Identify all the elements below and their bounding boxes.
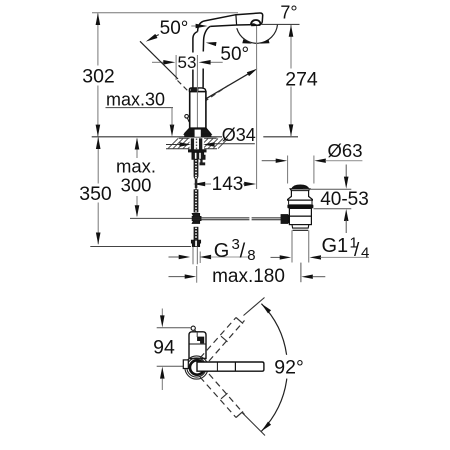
dimension 53 left tail [152,61,164,63]
tailpipe axis ext line [300,263,302,283]
dimension 302 arrow up [96,13,101,25]
dashed lever up edge B [209,321,245,362]
drain flange upper [288,189,313,200]
set screw tail [187,118,189,122]
ext line swing top [244,298,265,316]
dashed lever up joint tick [221,336,228,342]
faucet body [190,92,206,130]
dim G3/8 right [200,255,212,259]
swivel arc at pivot [237,25,278,44]
arc arrowhead right of datum [260,39,270,43]
dimension 274 line upper [290,25,292,69]
tailpipe right line [308,230,310,262]
dimension 302 line upper [97,13,99,65]
dashed lever down edge A [200,377,236,418]
dimension max.30 arrow down [170,125,175,137]
svg-text:300: 300 [121,175,152,196]
svg-text:8: 8 [247,247,255,264]
arrowhead onto vertical datum [247,69,258,77]
hose nut at G3/8 [191,240,200,246]
leader underline for max.30 [106,107,174,109]
svg-text:/: / [354,240,360,261]
base flare [184,128,211,134]
G3/8 ext tick right [199,252,201,264]
dimension 274 arrow down [289,124,294,136]
counter hatch top edge [179,137,217,139]
ext line under supply tube [196,266,198,283]
swing arc upper part [261,304,286,355]
rod guide bracket [200,159,202,162]
mounting washer band [188,149,207,152]
set screw detail [185,115,189,119]
dimension 53 left arrow [163,60,175,65]
neck left line upper [193,32,198,53]
aerator slot [252,24,261,26]
svg-text:302: 302 [82,65,115,87]
body top view divider [189,343,206,345]
shank right thread [199,138,202,149]
dimension 350 arrow up [96,137,101,149]
shank centre detail [196,139,198,150]
svg-text:Ø63: Ø63 [328,140,363,161]
leader arrow to neck [209,43,216,44]
dim G1-1/4 right [310,255,322,259]
escutcheon outer circle [185,356,208,379]
shank centre [194,138,199,149]
clip pin link [195,330,197,332]
drain body lower [289,216,311,224]
leader arrow to lever (horizontal) [191,25,198,27]
extension line 53 left [175,55,177,80]
drain dome cap [292,185,309,189]
dashed lever up end cap [236,318,243,324]
drain body upper [289,208,311,216]
ext line 94 bottom [157,365,184,367]
svg-text:94: 94 [153,337,175,359]
hatch mask over shank [190,138,205,149]
arc arrowhead left of datum [242,39,252,43]
dim G3/8 left [169,256,180,258]
dimension 302 arrow down [96,125,101,137]
dashed lever down end cap [236,411,243,417]
hose thin section [195,179,197,190]
svg-text:350: 350 [79,183,112,205]
svg-text:Ø34: Ø34 [222,125,256,145]
base centre slot [195,130,201,137]
dimension 143 right arrow+shaft [243,183,247,185]
swing arc arrowhead top [261,304,271,314]
ext line swing bottom [242,413,265,436]
nut slot [195,241,197,247]
ext line O63 left [287,156,289,184]
vertical datum line from spout tip [256,25,258,189]
svg-text:7°: 7° [280,3,297,23]
drain white band [289,200,312,204]
dimension 53 right tail [211,61,223,63]
G3/8 tube right line [196,247,198,264]
counter top line (right of label) [263,136,298,138]
cartridge cap [189,88,205,92]
svg-text:max.30: max.30 [106,90,165,110]
ext line 94 top [157,327,191,329]
ext line 40-53 bottom [314,208,352,210]
dashed lever down edge B [209,374,245,415]
dimension 53 right arrow [199,60,211,65]
dim 94 upper [161,309,163,316]
dimension 302 line lower [97,86,99,137]
leader stub from 50deg label [152,35,159,38]
svg-text:40-53: 40-53 [320,189,369,210]
clip pin circle [191,326,195,330]
svg-text:143: 143 [212,174,244,195]
dim G1-1/4 left [271,256,282,258]
shank left thread [191,138,194,149]
dimension max.30 drop line [171,108,173,125]
drain joint connector [288,216,295,223]
svg-text:274: 274 [285,69,318,91]
G3/8 tube left line [192,247,194,264]
dim O34 right arrow+tail [203,142,215,146]
hose taper [194,177,198,188]
dim O34 left tail+arrow [166,144,180,146]
tailpipe left line [291,230,293,262]
dim 40-53 lower arrow [344,209,349,221]
dim max180 left [169,276,188,278]
extension line, top of lever (302 datum) [92,12,238,14]
svg-text:max.180: max.180 [212,266,285,287]
lever ball ring [190,360,204,374]
drain shoulder line [293,229,309,231]
extension line, hose end (350 datum) [90,246,191,248]
svg-text:53: 53 [178,53,197,72]
pop-up rod [192,217,282,219]
neck right line lower [202,69,204,88]
dim 94 lower [160,367,165,379]
braided hose lower [194,227,199,240]
dimension 350 arrow down [96,233,101,245]
lever bar top view [197,362,264,371]
svg-text:50°: 50° [220,44,249,65]
nut white slots [195,153,197,159]
dim O63 right [314,159,326,163]
lever joint line [235,15,238,25]
svg-text:max.: max. [116,156,156,177]
pivot dome / aerator [251,20,261,25]
svg-text:G: G [214,240,230,262]
svg-text:50°: 50° [160,18,189,39]
ext line 40-53 top [303,188,351,190]
dim max180 right [301,275,313,279]
swing arc arrowhead bottom [261,422,271,432]
angle line lever raised 50deg [140,41,178,79]
drain taper [292,225,309,229]
dashed lever lowered position [204,85,229,102]
dimension 274 arrow up [289,25,294,37]
ext line O63 right [313,156,315,184]
lever joint line 2 [234,362,236,371]
swing arc lower part [261,379,286,432]
svg-text:92°: 92° [274,357,304,379]
mounting nut [192,152,205,159]
svg-text:G1: G1 [322,235,349,257]
body small centre mark [196,332,198,337]
dashed lever up edge A [200,318,236,359]
escutcheon middle circle [187,358,206,377]
braided hose upper [194,159,199,177]
lever joint line 1 [216,362,218,371]
dashed lever raised position [178,81,194,97]
counter bottom line [166,148,217,150]
arrowhead onto raised-lever line [146,34,158,42]
dimension max300 arrow down [135,205,140,217]
lever bar outline [198,13,263,32]
line max.30 arrow shaft [171,124,173,127]
body top view outline [189,332,206,359]
rod ball joint [192,213,201,223]
base plate [184,134,211,137]
dimension max300 line upper [136,139,138,158]
svg-text:3: 3 [232,236,240,253]
braided hose middle [194,189,199,212]
dashed lever down joint tick [221,393,228,399]
drain ball joint block [281,214,289,224]
dimension 350 line upper [97,137,99,183]
dimension 274 line lower [290,87,292,137]
dimension max300 line lower [136,196,138,216]
dimension max300 arrow up [135,138,140,150]
svg-text:/: / [240,241,246,263]
dim 40-53 upper arrow [345,165,347,178]
neck right line upper [203,26,210,51]
cartridge cap dark band [191,88,199,91]
counter hatching [168,139,228,149]
drain flange joint line [291,190,308,192]
body clip dark detail [198,337,204,343]
rod break mark [249,217,251,221]
axis line through body [196,55,198,135]
pop-up rod line to dimension [130,217,192,219]
reference line, 7-deg datum at spout tip [262,23,300,25]
drain rubber gasket [287,204,313,208]
dimension 350 line lower [97,203,99,245]
svg-text:4: 4 [361,245,369,262]
left tab on escutcheon [183,360,188,369]
dimension 143 left arrow+shaft [202,183,211,185]
dim O63 left [262,160,278,162]
angle line lever down-right [206,71,253,99]
neck left line lower [192,70,194,88]
counter top line (left of faucet) [92,136,222,138]
